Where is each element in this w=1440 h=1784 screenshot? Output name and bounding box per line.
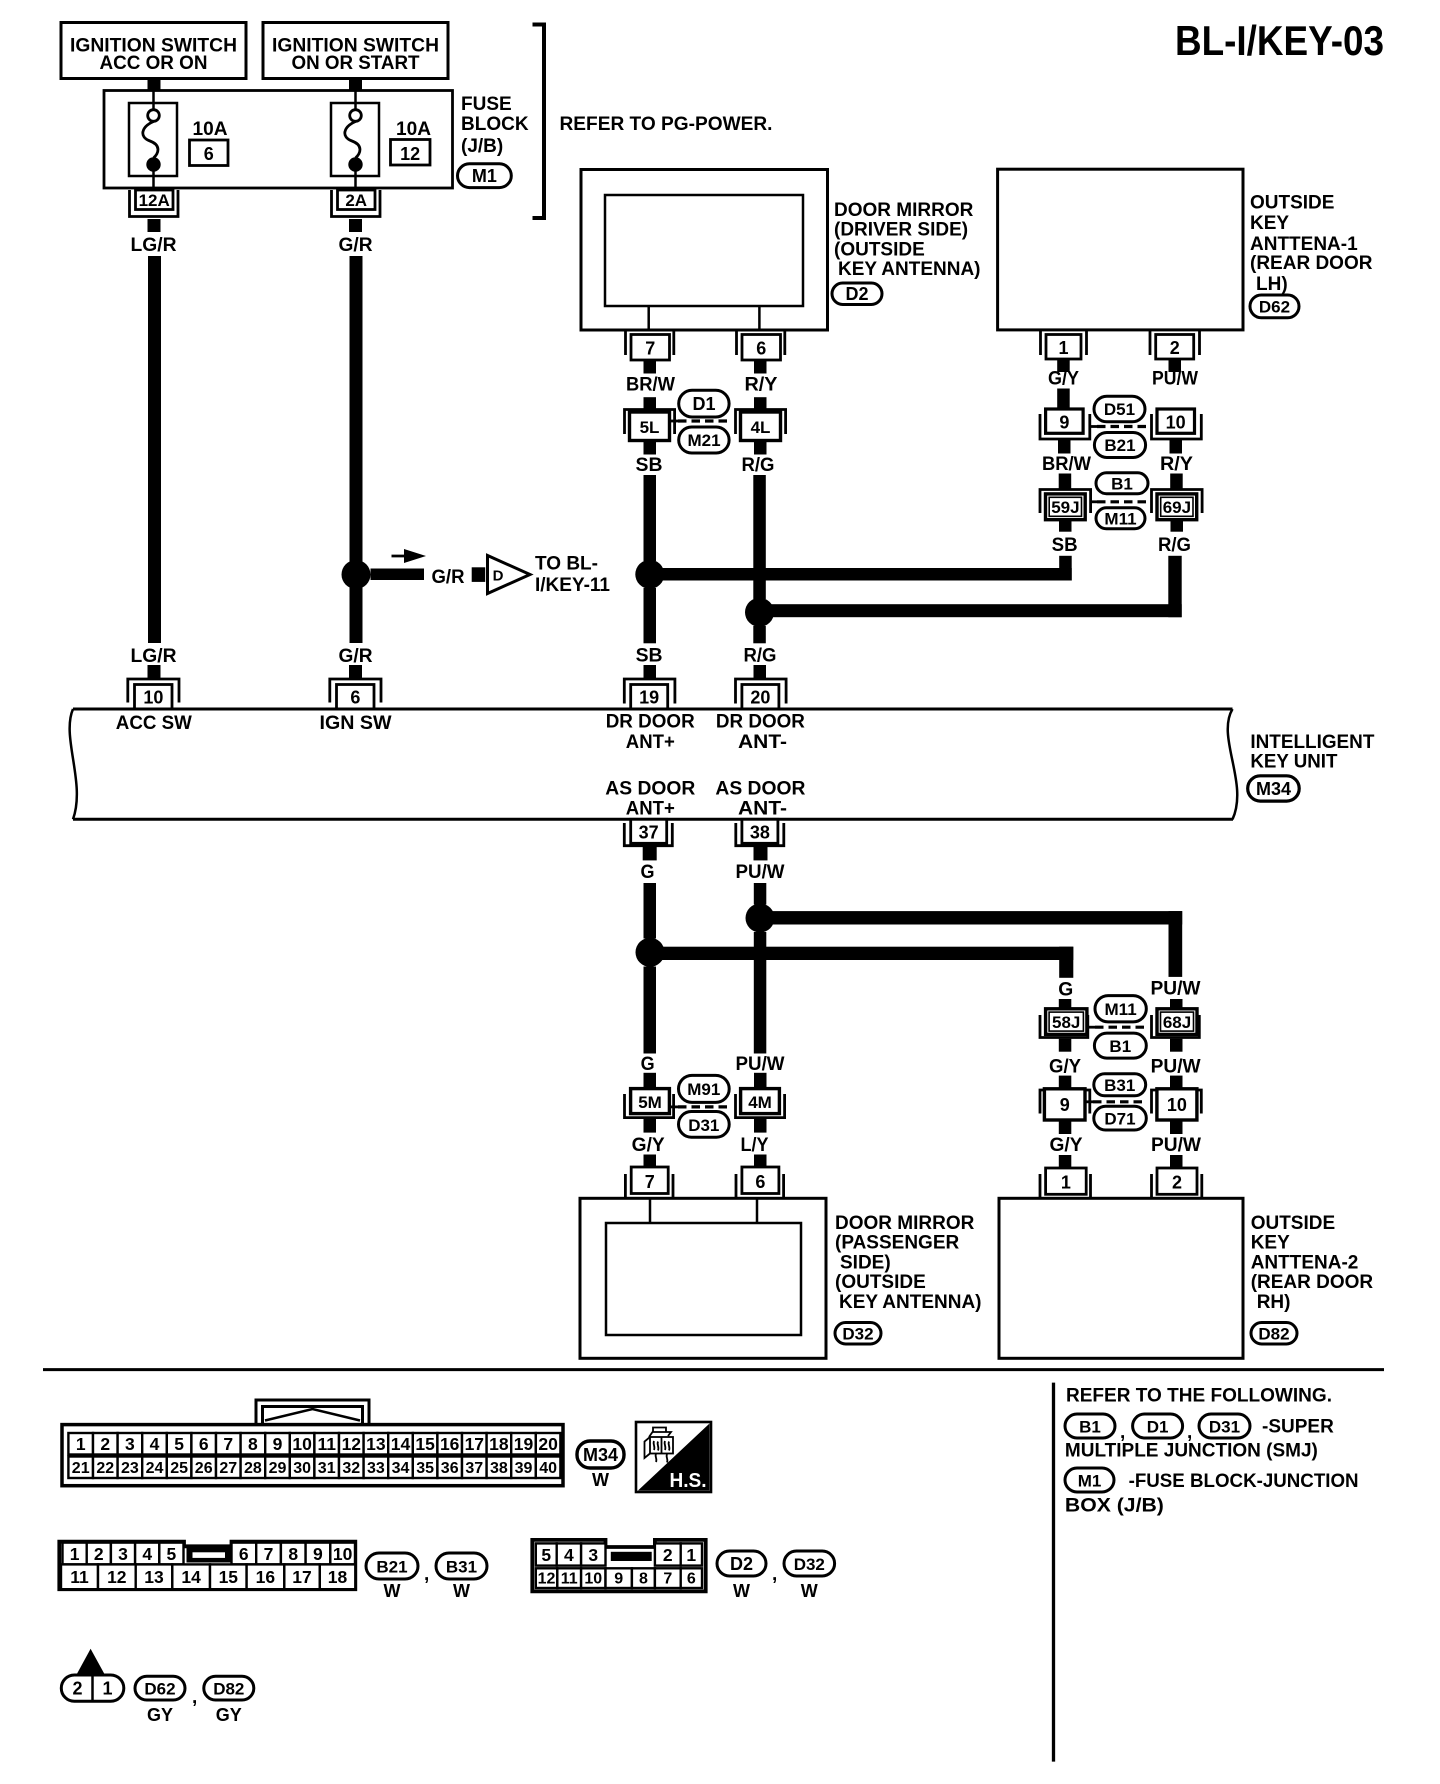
svg-text:6: 6 xyxy=(755,1172,765,1192)
svg-text:24: 24 xyxy=(146,1460,164,1477)
vertical divider xyxy=(1052,1383,1055,1762)
svg-text:1: 1 xyxy=(1058,338,1068,358)
wire stub above 58J xyxy=(1059,999,1072,1010)
label DR DOOR ANT- xyxy=(716,712,805,754)
svg-text:2: 2 xyxy=(1170,338,1180,358)
SMJ dashed line M91/D31 xyxy=(678,1105,729,1108)
door mirror driver side box D2 xyxy=(581,170,828,331)
wire stub below 4M xyxy=(754,1118,767,1133)
connector M34 oval bottom xyxy=(577,1441,624,1490)
svg-text:28: 28 xyxy=(244,1460,262,1477)
svg-text:12: 12 xyxy=(107,1567,127,1587)
SMJ dashed line B1/M11 xyxy=(1097,500,1148,503)
svg-text:BLOCK: BLOCK xyxy=(461,114,529,135)
svg-text:D2: D2 xyxy=(730,1554,753,1574)
svg-text:LH): LH) xyxy=(1256,274,1288,295)
svg-text:G: G xyxy=(641,1054,655,1075)
svg-text:10: 10 xyxy=(292,1434,312,1454)
svg-text:15: 15 xyxy=(219,1567,239,1587)
svg-text:16: 16 xyxy=(440,1434,460,1454)
connector M34 pinout box xyxy=(62,1425,563,1486)
connector 12A xyxy=(130,190,179,217)
svg-text:W: W xyxy=(384,1581,401,1601)
svg-text:M11: M11 xyxy=(1104,510,1136,529)
svg-text:32: 32 xyxy=(342,1460,360,1477)
svg-text:AS DOOR: AS DOOR xyxy=(605,779,695,800)
connector D31 oval xyxy=(679,1112,730,1138)
svg-text:B31: B31 xyxy=(1104,1076,1135,1095)
wire stub above pin 10 xyxy=(148,665,161,679)
wire stub above pin 20 xyxy=(754,665,767,679)
svg-text:G: G xyxy=(641,862,655,883)
SMJ tick 9 xyxy=(1090,425,1097,428)
svg-text:33: 33 xyxy=(367,1460,385,1477)
svg-text:DR DOOR: DR DOOR xyxy=(716,712,805,733)
svg-text:1: 1 xyxy=(102,1679,112,1699)
svg-text:KEY UNIT: KEY UNIT xyxy=(1250,752,1337,773)
wire stub before D triangle xyxy=(472,567,486,582)
wire stub below 9 xyxy=(1058,440,1071,454)
svg-text:4L: 4L xyxy=(751,418,771,437)
svg-text:D32: D32 xyxy=(794,1555,825,1574)
wire stub above 68J xyxy=(1170,999,1183,1010)
svg-text:1: 1 xyxy=(686,1545,696,1565)
svg-text:ACC SW: ACC SW xyxy=(116,713,192,734)
svg-text:REFER TO THE FOLLOWING.: REFER TO THE FOLLOWING. xyxy=(1066,1386,1332,1407)
wire stub below 69J xyxy=(1171,520,1184,532)
label AS DOOR ANT- xyxy=(715,779,805,820)
M34 pinout cells row2 pins 21-40 xyxy=(68,1457,560,1479)
svg-text:TO BL-: TO BL- xyxy=(535,554,598,575)
wire stub above 5M xyxy=(644,1073,657,1089)
svg-text:26: 26 xyxy=(195,1460,213,1477)
svg-text:6: 6 xyxy=(239,1544,249,1564)
svg-text:D2: D2 xyxy=(845,284,868,304)
label OUTSIDE KEY ANTTENA-2 (REAR DOOR RH) xyxy=(1251,1213,1374,1313)
svg-text:B1: B1 xyxy=(1079,1418,1101,1437)
svg-text:4: 4 xyxy=(150,1434,160,1454)
svg-text:12: 12 xyxy=(342,1434,362,1454)
connector B31 oval bottom xyxy=(436,1553,487,1601)
svg-text:(REAR DOOR: (REAR DOOR xyxy=(1251,1272,1374,1293)
wire stub below 2A xyxy=(349,219,362,232)
svg-text:37: 37 xyxy=(465,1460,483,1477)
svg-text:2: 2 xyxy=(663,1545,673,1565)
svg-text:ANT-: ANT- xyxy=(738,732,787,753)
wire SB right vertical xyxy=(1059,556,1072,581)
svg-text:M34: M34 xyxy=(1256,779,1291,799)
connector D2 oval bottom xyxy=(717,1551,766,1601)
D62/D82 pinout pill 2|1 xyxy=(61,1675,124,1701)
svg-text:G/Y: G/Y xyxy=(1050,1135,1083,1156)
svg-text:M91: M91 xyxy=(687,1080,720,1099)
bus SB horizontal xyxy=(650,568,1072,581)
svg-text:SB: SB xyxy=(636,646,663,667)
svg-text:LG/R: LG/R xyxy=(131,646,177,667)
svg-text:BOX (J/B): BOX (J/B) xyxy=(1065,1495,1164,1516)
junction dot G xyxy=(636,938,665,967)
svg-text:9: 9 xyxy=(313,1544,323,1564)
connector 10 (top) xyxy=(1152,409,1202,439)
wire SB below dot xyxy=(644,588,657,643)
svg-text:DOOR MIRROR: DOOR MIRROR xyxy=(834,200,974,221)
note -SUPER MULTIPLE JUNCTION (SMJ) xyxy=(1065,1417,1334,1462)
wire LG/R vertical xyxy=(148,256,161,643)
pin 1 connector (D62) xyxy=(1041,331,1087,359)
pin 38 AS DOOR ANT- xyxy=(736,819,784,845)
connector D82 oval xyxy=(1251,1323,1297,1345)
connector D82 oval bottom xyxy=(204,1676,254,1725)
svg-text:D1: D1 xyxy=(1147,1418,1169,1437)
svg-text:9: 9 xyxy=(1060,1095,1070,1115)
wire stub below 5M xyxy=(644,1118,657,1133)
SMJ dashed line M11/B1 lower xyxy=(1095,1026,1146,1029)
connector B21 oval bottom xyxy=(366,1553,418,1601)
svg-text:14: 14 xyxy=(391,1434,411,1454)
svg-text:G/R: G/R xyxy=(432,567,465,588)
connector 68J xyxy=(1152,1009,1200,1038)
svg-text:R/Y: R/Y xyxy=(1160,454,1193,475)
svg-text:-SUPER: -SUPER xyxy=(1262,1417,1334,1438)
connector 5M xyxy=(625,1089,674,1118)
pin 7 connector (D2) xyxy=(626,331,674,360)
svg-text:10: 10 xyxy=(1166,413,1186,433)
svg-text:7: 7 xyxy=(645,1172,655,1192)
connector M11 oval xyxy=(1096,508,1145,529)
svg-text:,: , xyxy=(424,1564,429,1585)
svg-text:R/G: R/G xyxy=(742,455,775,476)
wire stub below 4L xyxy=(754,441,767,455)
bracket refer to pg-power xyxy=(533,25,545,219)
SMJ tick 59J xyxy=(1091,500,1097,503)
svg-text:2: 2 xyxy=(72,1679,82,1699)
svg-text:1: 1 xyxy=(70,1544,80,1564)
connector M21 oval xyxy=(679,427,729,453)
connector D62 oval bottom xyxy=(135,1676,185,1725)
svg-text:11: 11 xyxy=(317,1434,336,1454)
svg-text:10: 10 xyxy=(584,1571,602,1588)
svg-text:B1: B1 xyxy=(1111,475,1133,494)
svg-text:KEY ANTENNA): KEY ANTENNA) xyxy=(838,259,981,280)
svg-text:36: 36 xyxy=(441,1460,459,1477)
svg-text:(OUTSIDE: (OUTSIDE xyxy=(834,239,925,260)
intelligent key unit strip M34 xyxy=(70,709,1238,819)
svg-text:25: 25 xyxy=(170,1460,188,1477)
svg-text:9: 9 xyxy=(614,1571,623,1588)
svg-text:37: 37 xyxy=(639,823,659,843)
svg-text:R/Y: R/Y xyxy=(745,375,778,396)
svg-text:PU/W: PU/W xyxy=(736,1054,785,1075)
svg-text:G/R: G/R xyxy=(339,235,373,256)
wire stub above pin 19 xyxy=(644,665,657,679)
svg-text:12A: 12A xyxy=(139,191,170,210)
svg-text:4M: 4M xyxy=(748,1093,772,1112)
svg-text:(PASSENGER: (PASSENGER xyxy=(835,1233,960,1254)
SMJ tick 58J xyxy=(1087,1026,1095,1029)
svg-text:D62: D62 xyxy=(1259,298,1290,317)
SMJ dashed line B31/D71 xyxy=(1093,1100,1146,1103)
svg-text:39: 39 xyxy=(515,1460,533,1477)
svg-text:B21: B21 xyxy=(376,1558,407,1577)
connector D1 oval note xyxy=(1133,1414,1183,1438)
svg-text:68J: 68J xyxy=(1163,1013,1191,1032)
connector B1 oval lower xyxy=(1094,1033,1146,1058)
wire stub above 5L xyxy=(644,397,657,414)
pin 6 IGN SW connector xyxy=(330,679,381,709)
svg-text:L/Y: L/Y xyxy=(741,1135,769,1156)
svg-text:29: 29 xyxy=(269,1460,287,1477)
svg-text:10A: 10A xyxy=(193,119,228,140)
svg-text:PU/W: PU/W xyxy=(1151,1057,1201,1078)
svg-text:1: 1 xyxy=(76,1434,86,1454)
pin 2 connector (D62) xyxy=(1150,331,1200,359)
svg-text:,: , xyxy=(192,1687,197,1708)
svg-text:38: 38 xyxy=(490,1460,508,1477)
wire stub above 59J xyxy=(1059,474,1072,490)
svg-text:17: 17 xyxy=(292,1567,311,1587)
svg-text:D82: D82 xyxy=(1258,1325,1289,1344)
wire stub below 68J xyxy=(1170,1039,1183,1052)
wire stub above pin 7 bottom xyxy=(644,1155,657,1168)
svg-text:PU/W: PU/W xyxy=(1152,369,1198,390)
svg-text:59J: 59J xyxy=(1051,498,1079,517)
label DOOR MIRROR (DRIVER SIDE)(OUTSIDE KEY ANTENNA) xyxy=(834,200,981,280)
svg-text:H.S.: H.S. xyxy=(670,1470,707,1492)
wire stub below pin 6 xyxy=(754,361,767,374)
svg-text:D62: D62 xyxy=(144,1680,175,1699)
wire branch G/R to D xyxy=(371,569,425,581)
D62/D82 pinout triangle xyxy=(76,1649,105,1675)
svg-text:19: 19 xyxy=(639,688,659,708)
svg-text:D31: D31 xyxy=(688,1116,719,1135)
svg-text:R/G: R/G xyxy=(744,646,777,667)
svg-text:5L: 5L xyxy=(640,418,660,437)
connector B1 oval xyxy=(1096,473,1148,494)
svg-text:17: 17 xyxy=(465,1434,484,1454)
H.S. stamp box xyxy=(636,1422,711,1492)
svg-text:BL-I/KEY-03: BL-I/KEY-03 xyxy=(1175,17,1384,64)
pin 19 DR DOOR ANT+ xyxy=(624,679,675,709)
svg-text:D31: D31 xyxy=(1209,1418,1240,1437)
connector 5L xyxy=(625,410,675,441)
svg-text:W: W xyxy=(453,1581,470,1601)
svg-text:SB: SB xyxy=(1052,535,1078,556)
svg-text:31: 31 xyxy=(318,1460,336,1477)
H.S. connector icon xyxy=(645,1428,674,1463)
svg-text:69J: 69J xyxy=(1163,498,1191,517)
connector D31 oval note xyxy=(1199,1414,1250,1438)
connector 2A xyxy=(332,190,381,217)
note TO BL-I/KEY-11 xyxy=(535,554,610,597)
svg-text:19: 19 xyxy=(514,1434,534,1454)
svg-text:5: 5 xyxy=(541,1545,551,1565)
wire G/R vertical xyxy=(350,256,363,643)
svg-text:B21: B21 xyxy=(1104,436,1135,455)
svg-text:10A: 10A xyxy=(396,119,431,140)
svg-text:11: 11 xyxy=(70,1567,89,1587)
svg-text:G/Y: G/Y xyxy=(1049,1057,1081,1078)
svg-text:8: 8 xyxy=(639,1571,648,1588)
svg-text:D1: D1 xyxy=(692,394,715,414)
svg-text:9: 9 xyxy=(273,1434,283,1454)
svg-text:KEY ANTENNA): KEY ANTENNA) xyxy=(839,1292,982,1313)
svg-text:IGN SW: IGN SW xyxy=(320,713,392,734)
svg-text:ANT-: ANT- xyxy=(738,799,787,820)
arrow over branch xyxy=(392,549,427,563)
svg-text:22: 22 xyxy=(96,1460,114,1477)
bus G horizontal xyxy=(650,947,1073,960)
wire PU/W below dot xyxy=(754,932,767,1054)
svg-text:4: 4 xyxy=(564,1545,574,1565)
wire stub above 4L xyxy=(754,397,767,414)
separator line xyxy=(43,1368,1384,1371)
svg-text:6: 6 xyxy=(204,144,214,164)
svg-text:PU/W: PU/W xyxy=(1151,979,1201,1000)
svg-text:7: 7 xyxy=(223,1434,233,1454)
svg-text:RH): RH) xyxy=(1257,1292,1291,1313)
svg-text:2A: 2A xyxy=(345,191,367,210)
SMJ tick 9 bottom xyxy=(1085,1100,1093,1103)
pin 20 DR DOOR ANT- xyxy=(736,679,787,709)
pin 2 connector (D82) xyxy=(1152,1168,1202,1198)
svg-text:20: 20 xyxy=(538,1434,558,1454)
svg-text:15: 15 xyxy=(415,1434,435,1454)
pin 6 connector (D32) xyxy=(736,1167,784,1198)
wire stub below 12A xyxy=(148,219,161,232)
bus PU/W horizontal xyxy=(760,911,1182,924)
svg-text:G/R: G/R xyxy=(339,646,373,667)
svg-text:ACC OR ON: ACC OR ON xyxy=(100,53,208,74)
svg-text:6: 6 xyxy=(350,688,360,708)
connector 69J xyxy=(1152,490,1203,520)
svg-text:ON OR START: ON OR START xyxy=(292,53,420,74)
connector B31 oval xyxy=(1094,1074,1146,1096)
bus G corner drop xyxy=(1059,947,1073,978)
svg-text:PU/W: PU/W xyxy=(736,862,785,883)
SMJ tick 5L xyxy=(670,420,679,423)
svg-text:KEY: KEY xyxy=(1250,213,1289,234)
svg-text:12: 12 xyxy=(400,144,420,164)
svg-text:M1: M1 xyxy=(1078,1472,1102,1491)
svg-text:8: 8 xyxy=(288,1544,298,1564)
svg-text:D32: D32 xyxy=(842,1325,873,1344)
svg-text:3: 3 xyxy=(588,1545,598,1565)
fuse F6 10A xyxy=(129,91,228,191)
svg-text:M21: M21 xyxy=(687,431,720,450)
wire stub above pin 2 bottom xyxy=(1170,1155,1183,1168)
wire stub above pin 6 bottom xyxy=(754,1155,767,1168)
svg-text:3: 3 xyxy=(118,1544,128,1564)
svg-text:(REAR DOOR: (REAR DOOR xyxy=(1250,253,1373,274)
svg-text:MULTIPLE JUNCTION (SMJ): MULTIPLE JUNCTION (SMJ) xyxy=(1065,1441,1318,1462)
svg-text:LG/R: LG/R xyxy=(131,235,177,256)
svg-text:M11: M11 xyxy=(1105,1000,1137,1019)
fuse F12 10A xyxy=(331,91,431,191)
wire stub below 38 xyxy=(754,846,768,861)
svg-text:35: 35 xyxy=(416,1460,434,1477)
svg-text:2: 2 xyxy=(100,1434,110,1454)
svg-text:30: 30 xyxy=(293,1460,311,1477)
fuse block label FUSE BLOCK (J/B) xyxy=(461,94,529,157)
wire G below dot xyxy=(644,967,657,1054)
svg-text:FUSE: FUSE xyxy=(461,94,512,115)
junction dot G/R xyxy=(342,560,371,589)
bus R/G horizontal xyxy=(760,604,1182,617)
svg-text:23: 23 xyxy=(121,1460,139,1477)
label DOOR MIRROR (PASSENGER SIDE)(OUTSIDE KEY ANTENNA) xyxy=(835,1213,982,1313)
connector 10 (bottom) xyxy=(1152,1089,1202,1120)
svg-text:D: D xyxy=(493,568,504,585)
label INTELLIGENT KEY UNIT xyxy=(1250,732,1374,773)
wire stub below 10 bottom xyxy=(1170,1120,1183,1134)
svg-text:38: 38 xyxy=(750,823,770,843)
svg-text:18: 18 xyxy=(489,1434,509,1454)
svg-text:2: 2 xyxy=(94,1544,104,1564)
M34 pinout cells row1 pins 1-20 xyxy=(68,1433,560,1455)
ignition switch ON OR START box xyxy=(263,23,448,79)
SMJ dashed line D51/B21 xyxy=(1097,425,1146,428)
svg-text:W: W xyxy=(801,1581,818,1601)
svg-text:5M: 5M xyxy=(638,1093,662,1112)
off-page connector D triangle xyxy=(488,556,531,594)
svg-text:I/KEY-11: I/KEY-11 xyxy=(535,575,610,596)
svg-text:8: 8 xyxy=(248,1434,258,1454)
pin 6 connector (D2) xyxy=(737,331,785,360)
connector 59J xyxy=(1040,490,1091,520)
svg-text:(OUTSIDE: (OUTSIDE xyxy=(835,1272,926,1293)
svg-text:SIDE): SIDE) xyxy=(840,1252,891,1273)
svg-text:7: 7 xyxy=(663,1571,672,1588)
svg-text:5: 5 xyxy=(174,1434,184,1454)
connector M34 pinout tab xyxy=(256,1400,369,1431)
svg-text:1: 1 xyxy=(1061,1173,1071,1193)
door mirror passenger side box D32 xyxy=(580,1198,826,1358)
connector B21 oval xyxy=(1094,433,1145,458)
connector M1 oval xyxy=(458,164,512,188)
svg-text:13: 13 xyxy=(366,1434,386,1454)
connector D2/D32 pinout box xyxy=(532,1540,705,1592)
svg-text:6: 6 xyxy=(756,339,766,359)
wire G vertical upper xyxy=(644,883,657,939)
svg-text:40: 40 xyxy=(539,1460,557,1477)
wire stub below pin 2 xyxy=(1169,359,1182,372)
svg-text:DR DOOR: DR DOOR xyxy=(606,712,695,733)
connector 4M xyxy=(736,1089,785,1118)
connector D51 oval xyxy=(1094,396,1145,422)
svg-text:34: 34 xyxy=(392,1460,410,1477)
svg-text:B31: B31 xyxy=(446,1558,477,1577)
svg-text:(DRIVER SIDE): (DRIVER SIDE) xyxy=(834,220,968,241)
svg-text:DOOR MIRROR: DOOR MIRROR xyxy=(835,1213,975,1234)
svg-text:BR/W: BR/W xyxy=(626,375,675,396)
svg-text:INTELLIGENT: INTELLIGENT xyxy=(1250,732,1374,753)
svg-text:OUTSIDE: OUTSIDE xyxy=(1250,192,1334,213)
wire stub above 10 bottom xyxy=(1170,1076,1183,1089)
svg-text:7: 7 xyxy=(645,339,655,359)
svg-text:-FUSE BLOCK-JUNCTION: -FUSE BLOCK-JUNCTION xyxy=(1129,1471,1359,1492)
svg-text:18: 18 xyxy=(328,1567,348,1587)
svg-text:10: 10 xyxy=(333,1544,353,1564)
svg-text:OUTSIDE: OUTSIDE xyxy=(1251,1213,1335,1234)
wire stub above 69J xyxy=(1170,474,1183,490)
svg-text:4: 4 xyxy=(142,1544,152,1564)
svg-text:W: W xyxy=(592,1470,609,1490)
connector D62 oval xyxy=(1250,295,1299,318)
svg-text:SB: SB xyxy=(636,455,663,476)
svg-text:GY: GY xyxy=(216,1705,242,1725)
svg-text:12: 12 xyxy=(538,1571,556,1588)
label AS DOOR ANT+ xyxy=(605,779,695,820)
